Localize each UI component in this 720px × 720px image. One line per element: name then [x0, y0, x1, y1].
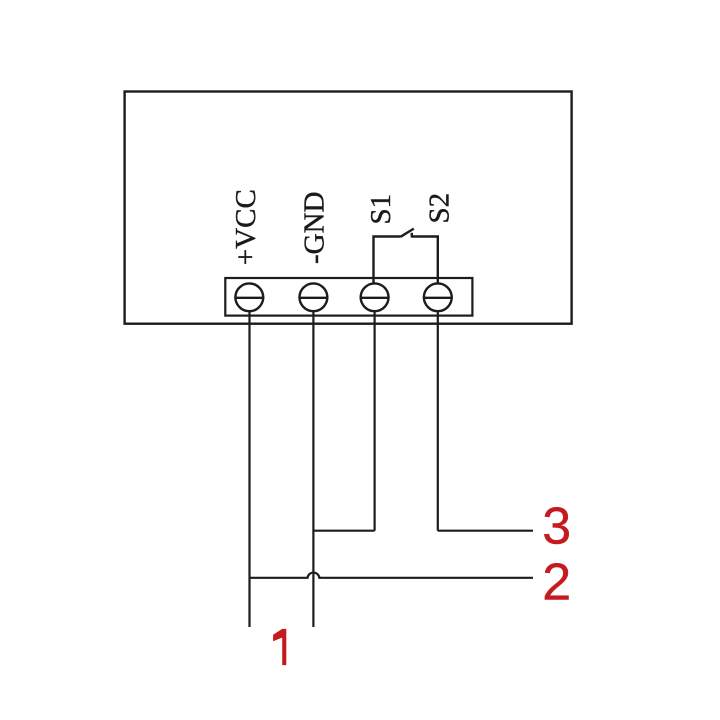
svg-text:+VCC: +VCC: [230, 189, 262, 265]
svg-text:2: 2: [542, 554, 571, 612]
svg-text:3: 3: [542, 498, 571, 556]
svg-text:-GND: -GND: [299, 192, 331, 265]
svg-text:S2: S2: [424, 193, 456, 224]
svg-text:S1: S1: [365, 194, 397, 225]
